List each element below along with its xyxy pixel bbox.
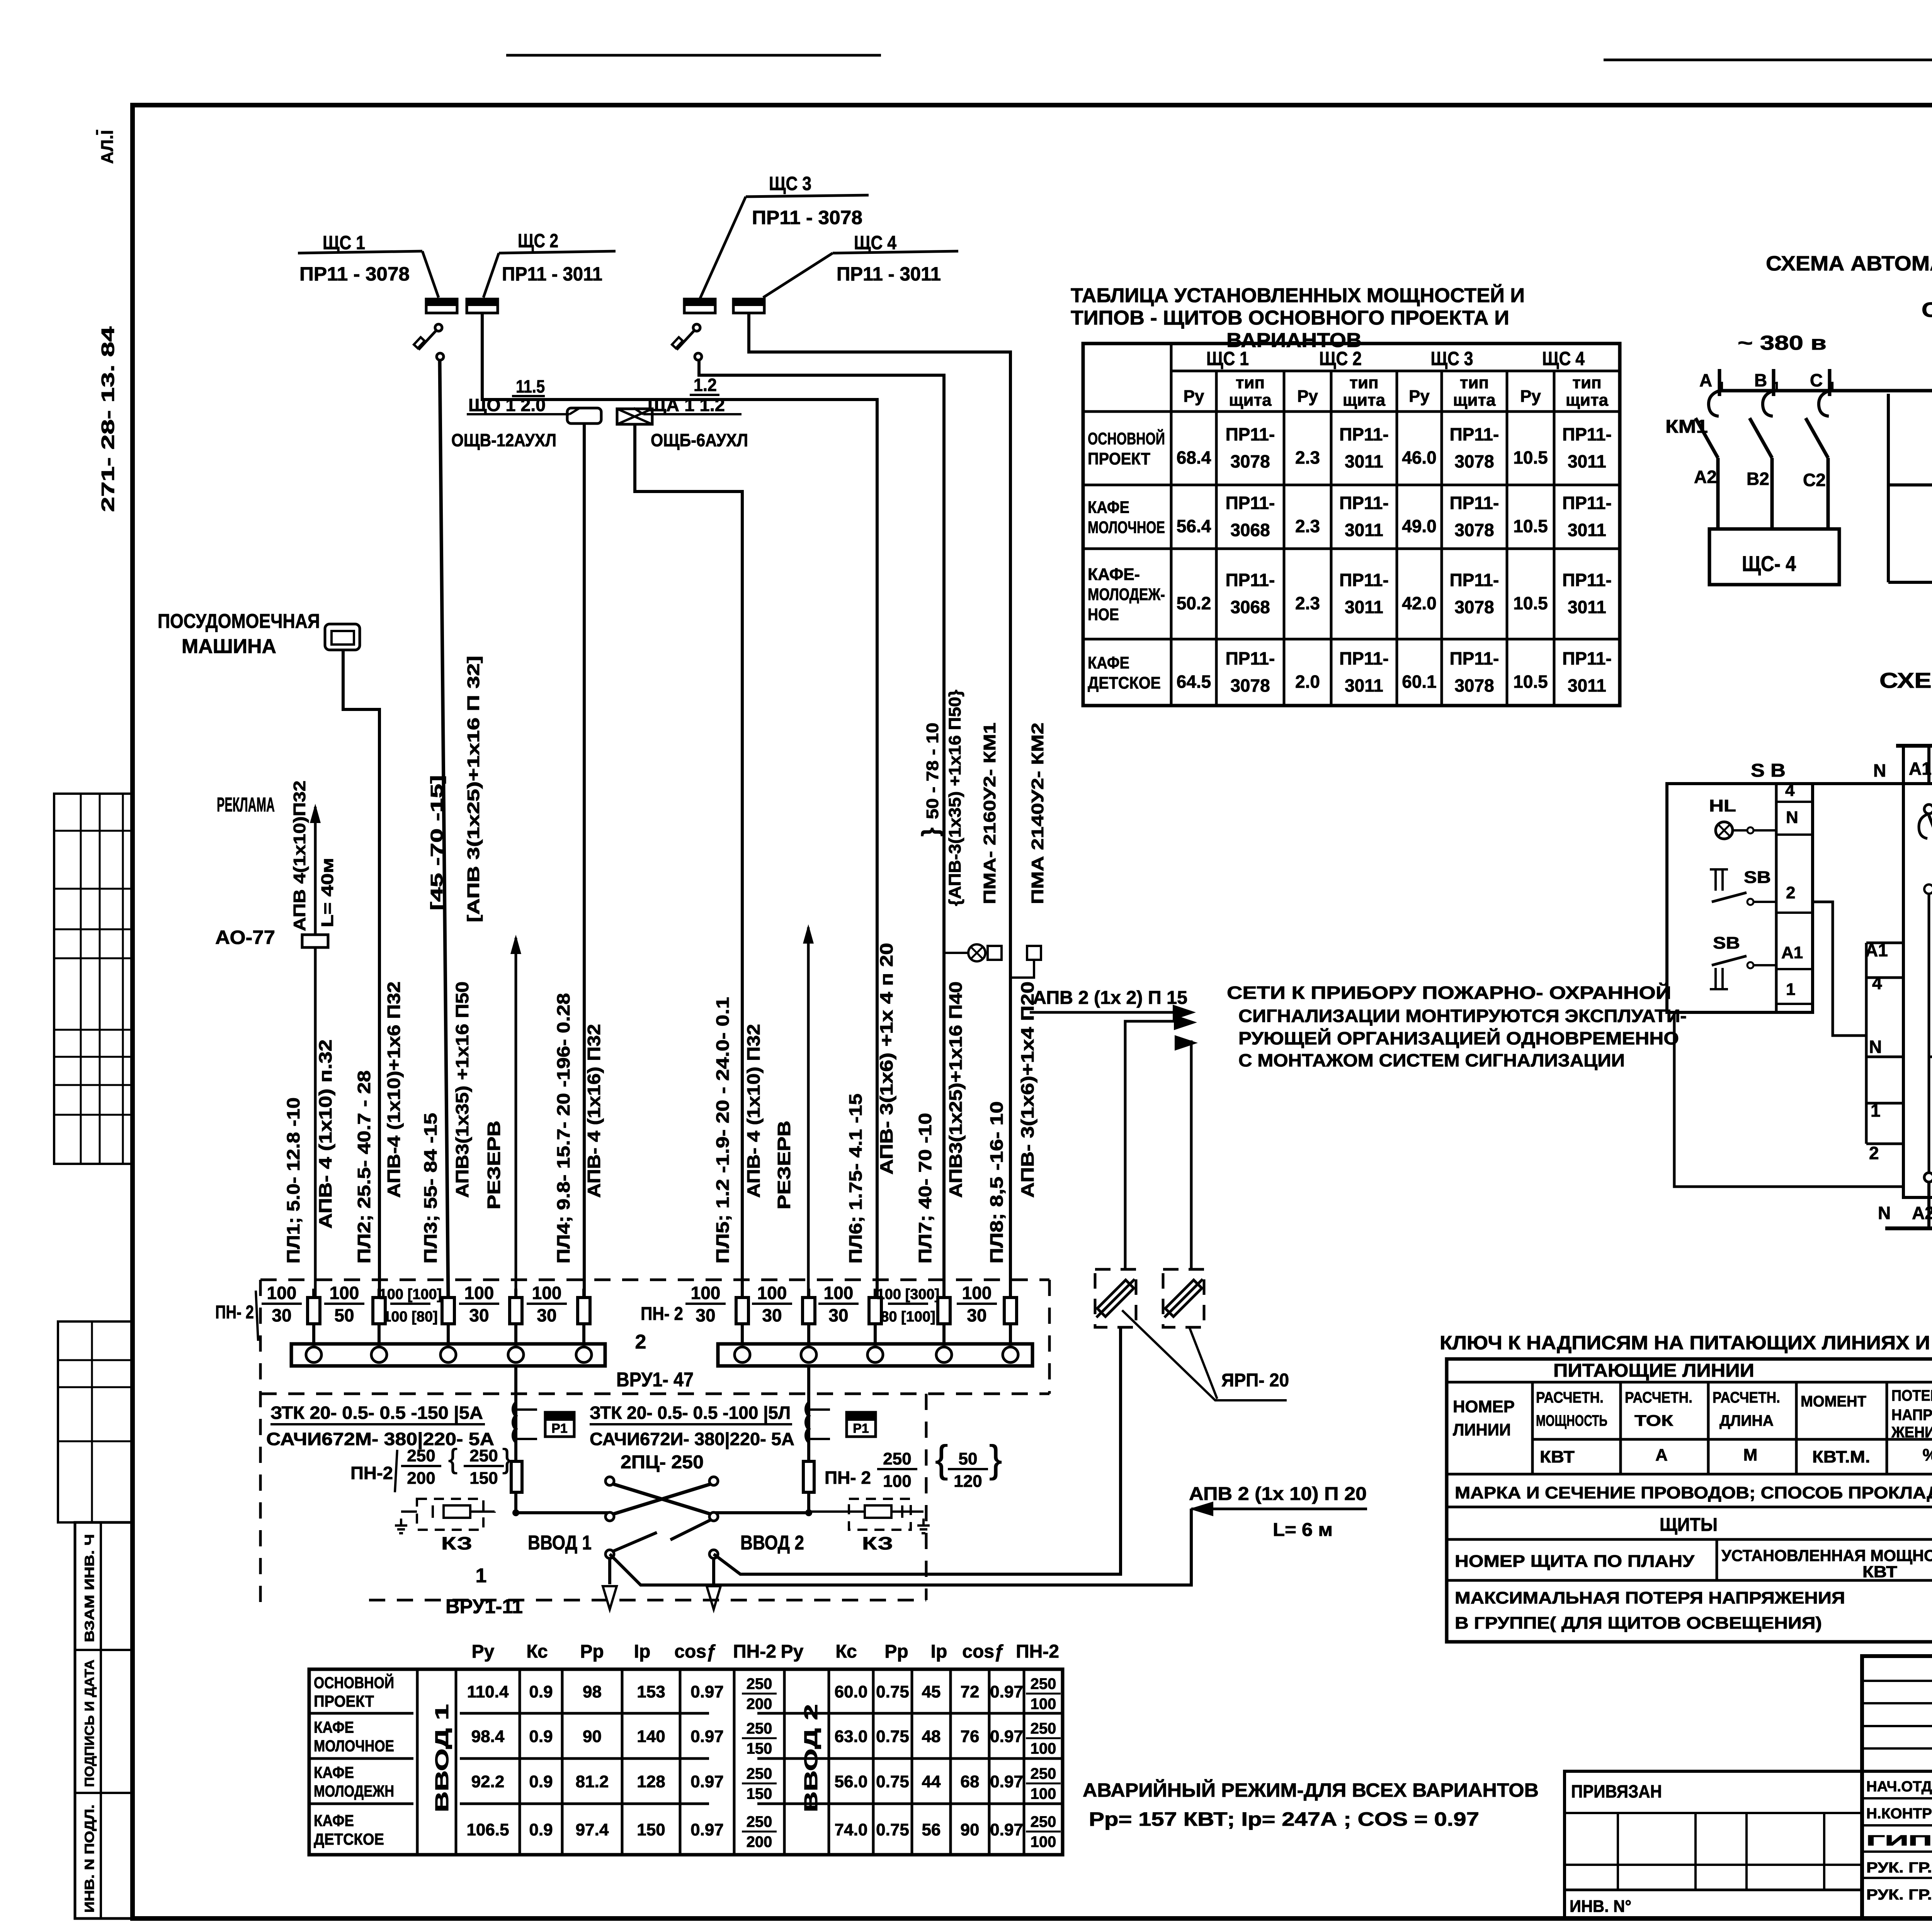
junction left [512, 1509, 519, 1516]
svg-text:АПВ 2 (1х 10) П 20: АПВ 2 (1х 10) П 20 [1189, 1484, 1367, 1504]
svg-text:щита: щита [1343, 391, 1386, 410]
svg-text:ТОК: ТОК [1634, 1412, 1673, 1429]
svg-text:200: 200 [407, 1469, 435, 1488]
wire ПЛ1 Реклама with up arrow [314, 807, 317, 1299]
svg-text:30: 30 [469, 1305, 489, 1325]
svg-text:А: А [1655, 1446, 1668, 1464]
svg-text:SB: SB [1713, 934, 1740, 952]
wire output down-arrow 2 [712, 1558, 715, 1584]
svg-text:тип: тип [1236, 373, 1265, 392]
wire output down-arrow 1 [608, 1558, 611, 1584]
svg-text:0.75: 0.75 [876, 1682, 909, 1701]
wire ЩО1 feeder ПЛ4 down [583, 423, 586, 1299]
title block upper-left rows [1862, 1680, 1932, 1682]
svg-text:[АПВ 3(1х25)+1х16 П 32]: [АПВ 3(1х25)+1х16 П 32] [464, 656, 483, 922]
svg-text:110.4: 110.4 [467, 1682, 509, 1701]
title block signature rows [1862, 1797, 1932, 1799]
svg-text:3011: 3011 [1345, 451, 1383, 471]
svg-text:0.75: 0.75 [876, 1727, 909, 1746]
wire ЩС3 to ПЛ7 [699, 360, 944, 1299]
wire ЩС2 to ПЛ6 [482, 313, 877, 1299]
switch under ЩС1 [435, 324, 442, 331]
svg-text:ВВОД 2: ВВОД 2 [740, 1532, 804, 1554]
svg-text:ПРОЕКТ: ПРОЕКТ [314, 1692, 374, 1710]
svg-text:ПОСУДОМОЕЧНАЯ: ПОСУДОМОЕЧНАЯ [158, 610, 320, 633]
svg-text:ПЛ4; 9.8- 15.7- 20 -196- 0.28: ПЛ4; 9.8- 15.7- 20 -196- 0.28 [553, 993, 573, 1264]
svg-text:81.2: 81.2 [576, 1772, 609, 1791]
svg-text:КВТ: КВТ [1862, 1563, 1897, 1581]
svg-text:100: 100 [464, 1283, 494, 1303]
svg-text:СХЕМА ЭЛЕКТРИЧЕСКАЯ ПРИНЦИ: СХЕМА ЭЛЕКТРИЧЕСКАЯ ПРИНЦИПИАЛЬНАЯ [1922, 298, 1932, 321]
svg-text:2: 2 [1869, 1143, 1879, 1163]
svg-text:0.97: 0.97 [990, 1772, 1023, 1791]
svg-text:56.0: 56.0 [835, 1772, 868, 1791]
svg-text:ЩС 1: ЩС 1 [1206, 348, 1249, 369]
svg-text:КЛЮЧ К НАДПИСЯМ НА ПИТАЮЩИ: КЛЮЧ К НАДПИСЯМ НА ПИТАЮЩИХ ЛИНИЯХ И ЩИТ… [1440, 1332, 1932, 1354]
svg-text:2.3: 2.3 [1295, 447, 1320, 468]
svg-text:2.3: 2.3 [1295, 516, 1320, 536]
svg-text:АПВ- 4 (1х10) П32: АПВ- 4 (1х10) П32 [743, 1024, 764, 1198]
svg-text:3078: 3078 [1454, 520, 1494, 540]
svg-text:АПВ 4(1х10)П32: АПВ 4(1х10)П32 [290, 781, 309, 931]
svg-text:НОЕ: НОЕ [1088, 605, 1119, 624]
svg-text:L= 6 м: L= 6 м [1273, 1520, 1333, 1540]
svg-text:ПР11-: ПР11- [1450, 570, 1499, 590]
svg-text:С МОНТАЖОМ СИСТЕМ СИГНАЛИЗАЦ: С МОНТАЖОМ СИСТЕМ СИГНАЛИЗАЦИИ [1238, 1050, 1625, 1070]
svg-text:ЩС 2: ЩС 2 [1319, 348, 1362, 369]
svg-text:3068: 3068 [1230, 520, 1270, 540]
svg-text:Р1: Р1 [551, 1421, 568, 1436]
starter symbol КМ2 on ПЛ8 stub [1027, 946, 1041, 960]
svg-text:30: 30 [762, 1305, 782, 1325]
wire changeover to ЯРП line upper [714, 1327, 1121, 1574]
meter box Р1 left [545, 1412, 574, 1437]
svg-text:HL: HL [1709, 796, 1736, 815]
busbar right (ВРУ1-47 section 2) [718, 1344, 1032, 1366]
svg-text:~ 380 в: ~ 380 в [1738, 332, 1827, 354]
svg-text:2: 2 [1786, 883, 1795, 902]
svg-text:50: 50 [334, 1305, 354, 1325]
svg-text:Кс: Кс [835, 1641, 857, 1662]
svg-text:ПР11-: ПР11- [1562, 493, 1612, 513]
svg-text:2: 2 [635, 1331, 646, 1353]
switch under ЩС3 [693, 324, 700, 331]
svg-text:100: 100 [757, 1283, 787, 1303]
leader lines to ЯРП-20 [1122, 1310, 1287, 1400]
svg-text:ПР11-: ПР11- [1562, 648, 1612, 668]
svg-text:100: 100 [267, 1283, 297, 1303]
svg-text:РАСЧЕТН.: РАСЧЕТН. [1625, 1389, 1692, 1406]
svg-text:4: 4 [1785, 781, 1795, 800]
panel symbol ЩС2 [467, 299, 498, 313]
svg-text:ЩС 1: ЩС 1 [323, 232, 365, 253]
svg-text:АПВ-4 (1х10)+1х6 П32: АПВ-4 (1х10)+1х6 П32 [384, 981, 404, 1198]
svg-text:ПЛ1; 5.0- 12.8 -10: ПЛ1; 5.0- 12.8 -10 [283, 1097, 303, 1264]
svg-text:МАШИНА: МАШИНА [182, 635, 276, 658]
svg-text:КАФЕ-: КАФЕ- [1088, 565, 1140, 584]
svg-text:3078: 3078 [1454, 597, 1494, 617]
svg-text:А1: А1 [1865, 940, 1888, 960]
svg-text:100: 100 [532, 1283, 562, 1303]
svg-text:Iр: Iр [931, 1641, 947, 1662]
wire arrow line2 [1125, 1021, 1175, 1269]
svg-text:ПЛ6; 1.75- 4.1 -15: ПЛ6; 1.75- 4.1 -15 [845, 1094, 866, 1264]
svg-text:100: 100 [1031, 1696, 1056, 1713]
svg-text:ПЛ8; 8,5 -16- 10: ПЛ8; 8,5 -16- 10 [986, 1101, 1007, 1264]
wire with arrow to note line1 [1030, 1011, 1182, 1014]
svg-text:ЗТК 20- 0.5- 0.5 -100 |5Л: ЗТК 20- 0.5- 0.5 -100 |5Л [590, 1403, 791, 1423]
svg-text:128: 128 [637, 1772, 665, 1791]
svg-text:60.0: 60.0 [835, 1682, 868, 1701]
svg-text:30: 30 [828, 1305, 848, 1325]
wire АПВ 2(1х10) П20 with arrow [1191, 1508, 1367, 1510]
fuse ПН-2 [514, 1289, 517, 1345]
reserve arrow right (резерв) [807, 927, 810, 1299]
svg-text:97.4: 97.4 [576, 1820, 609, 1839]
svg-text:ВВОД 1: ВВОД 1 [432, 1704, 452, 1812]
svg-text:Рр= 157 КВТ; Iр= 247А ; COS: Рр= 157 КВТ; Iр= 247А ; COS = 0.97 [1089, 1808, 1479, 1830]
svg-text:ПР11-: ПР11- [1339, 493, 1389, 513]
svg-text:3011: 3011 [1345, 597, 1383, 617]
svg-text:ИНВ. N ПОДЛ.: ИНВ. N ПОДЛ. [82, 1804, 97, 1913]
svg-text:3078: 3078 [1230, 675, 1270, 696]
svg-text:ЖЕНИЯ: ЖЕНИЯ [1891, 1424, 1932, 1441]
panel symbol ЩС3 [684, 299, 715, 313]
svg-text:90: 90 [583, 1727, 602, 1746]
svg-text:0.9: 0.9 [529, 1682, 553, 1701]
svg-text:Рр: Рр [580, 1641, 604, 1662]
svg-text:ПР11-: ПР11- [1339, 570, 1389, 590]
svg-text:ПР11-: ПР11- [1450, 648, 1499, 668]
ground right [922, 1519, 925, 1526]
svg-text:150: 150 [747, 1786, 772, 1803]
svg-text:ДЕТСКОЕ: ДЕТСКОЕ [314, 1830, 384, 1848]
svg-text:МОЛОДЕЖН: МОЛОДЕЖН [314, 1782, 394, 1800]
svg-text:10.5: 10.5 [1513, 516, 1548, 536]
svg-text:ПР11-: ПР11- [1450, 424, 1499, 444]
svg-text:ПР11 - 3011: ПР11 - 3011 [837, 263, 941, 285]
svg-text:{: { [448, 1444, 457, 1475]
svg-text:[45 -70 -15]: [45 -70 -15] [427, 775, 446, 910]
svg-text:250: 250 [1031, 1675, 1056, 1692]
panel box ЩА1 with cross [617, 409, 652, 424]
КМ1 poles [1924, 804, 1932, 814]
svg-text:СХЕМА ВНЕШНИХ СОЕДИНЕНИЙ: СХЕМА ВНЕШНИХ СОЕДИНЕНИЙ [1879, 668, 1932, 692]
svg-text:0.97: 0.97 [690, 1727, 724, 1746]
svg-text:250: 250 [747, 1765, 772, 1782]
svg-text:ЩС 3: ЩС 3 [1431, 348, 1473, 369]
svg-text:100: 100 [1031, 1740, 1056, 1757]
panel symbol ЩС4 [733, 299, 764, 313]
svg-text:ЩС- 4: ЩС- 4 [1742, 551, 1796, 576]
svg-text:ПН-2: ПН-2 [733, 1641, 776, 1662]
svg-text:УСТАНОВЛЕННАЯ МОЩНОСТЬ: УСТАНОВЛЕННАЯ МОЩНОСТЬ [1721, 1546, 1932, 1565]
svg-text:А: А [1699, 370, 1712, 390]
svg-text:271- 28- 13. 84: 271- 28- 13. 84 [98, 326, 118, 512]
svg-text:МОЛОДЕЖ-: МОЛОДЕЖ- [1088, 585, 1165, 604]
svg-text:ПЛ7; 40- 70 -10: ПЛ7; 40- 70 -10 [915, 1113, 935, 1264]
svg-text:РЕКЛАМА: РЕКЛАМА [217, 794, 275, 816]
svg-text:АПВ3(1х35) +1х16 П50: АПВ3(1х35) +1х16 П50 [452, 981, 472, 1198]
svg-text:250: 250 [747, 1675, 772, 1692]
fuse ПН-2 [942, 1289, 946, 1345]
wire block top link [1813, 782, 1903, 785]
svg-text:ПР11-: ПР11- [1339, 424, 1389, 444]
svg-text:1.2: 1.2 [694, 375, 717, 395]
svg-text:Ру: Ру [781, 1641, 804, 1662]
svg-text:{АПВ-3(1х35) +1х16 П50}: {АПВ-3(1х35) +1х16 П50} [946, 690, 964, 906]
svg-text:Ру: Ру [1184, 387, 1204, 406]
svg-text:ПН- 2: ПН- 2 [641, 1304, 683, 1324]
svg-text:ПР11-: ПР11- [1226, 424, 1275, 444]
svg-text:МОЩНОСТЬ: МОЩНОСТЬ [1536, 1412, 1607, 1429]
wire main control rung [1719, 389, 1932, 393]
svg-text:153: 153 [637, 1682, 665, 1701]
svg-text:N: N [1878, 1203, 1891, 1223]
svg-text:ИНВ. N°: ИНВ. N° [1570, 1897, 1631, 1916]
left block SB outline [1667, 784, 1813, 1012]
busbar left (ВРУ1-47 section 1) [291, 1344, 605, 1366]
svg-text:250: 250 [407, 1446, 435, 1465]
svg-text:Ру: Ру [1297, 387, 1318, 406]
svg-text:ПН-2: ПН-2 [350, 1463, 393, 1483]
margin revision grid upper [54, 794, 133, 1164]
fuse ПН-2 right main [803, 1461, 814, 1492]
svg-text:92.2: 92.2 [471, 1772, 505, 1791]
svg-text:200: 200 [747, 1833, 772, 1850]
svg-text:44: 44 [922, 1772, 941, 1791]
svg-text:ПЛ2; 25.5- 40.7 - 28: ПЛ2; 25.5- 40.7 - 28 [354, 1070, 374, 1264]
svg-text:АПВ 2 (1х 2) П 15: АПВ 2 (1х 2) П 15 [1033, 988, 1187, 1008]
svg-text:50.2: 50.2 [1177, 593, 1211, 613]
svg-text:Ру: Ру [1520, 387, 1541, 406]
svg-text:68: 68 [961, 1772, 980, 1791]
title block Привязан sub-block [1565, 1771, 1862, 1918]
panel box ЩО1 [567, 408, 601, 423]
earthing switch КЗ left (dashed box) [417, 1499, 483, 1530]
svg-text:ВРУ1-11: ВРУ1-11 [446, 1595, 523, 1618]
svg-text:0.97: 0.97 [990, 1682, 1023, 1701]
svg-text:В: В [1754, 370, 1767, 390]
svg-text:48: 48 [922, 1727, 941, 1746]
svg-text:ДЕТСКОЕ: ДЕТСКОЕ [1088, 673, 1161, 692]
svg-text:80 [100]: 80 [100] [881, 1309, 935, 1325]
svg-text:САЧИ672М- 380|220- 5А: САЧИ672М- 380|220- 5А [266, 1429, 494, 1449]
reserve arrow left (резерв) [515, 938, 517, 1299]
svg-text:10.5: 10.5 [1513, 447, 1548, 468]
svg-text:ПИТАЮЩИЕ ЛИНИИ: ПИТАЮЩИЕ ЛИНИИ [1553, 1361, 1754, 1381]
svg-text:140: 140 [637, 1727, 665, 1746]
svg-text:N: N [1869, 1037, 1882, 1057]
starter symbol КМ1 on ПЛ7 [968, 944, 985, 961]
svg-text:АПВ- 3(1х6)+1х4 П20: АПВ- 3(1х6)+1х4 П20 [1017, 981, 1037, 1198]
meter box Р1 right [847, 1412, 876, 1437]
svg-text:SB: SB [1744, 868, 1771, 887]
sheet top edge line left [506, 54, 881, 57]
wire changeover to ЯРП line lower [610, 1509, 1191, 1585]
svg-text:ОСНОВНОЙ: ОСНОВНОЙ [1088, 429, 1165, 448]
svg-text:{: { [935, 1437, 948, 1481]
svg-text:0.97: 0.97 [690, 1772, 724, 1791]
wire ЩС1 feeder ПЛ3 down [440, 360, 448, 1299]
svg-text:3011: 3011 [1345, 675, 1383, 696]
sheet top edge line [1604, 59, 1932, 61]
svg-text:49.0: 49.0 [1402, 516, 1437, 536]
svg-text:НАЧ.ОТД: НАЧ.ОТД [1866, 1779, 1932, 1795]
svg-text:3068: 3068 [1230, 597, 1270, 617]
svg-text:АПВ- 4 (1х16) П32: АПВ- 4 (1х16) П32 [584, 1024, 604, 1198]
svg-text:56.4: 56.4 [1177, 516, 1211, 536]
fuse ПН-2 [807, 1289, 810, 1345]
svg-text:100: 100 [330, 1283, 359, 1303]
svg-text:250: 250 [1031, 1813, 1056, 1830]
svg-text:10.5: 10.5 [1513, 672, 1548, 692]
svg-text:АПВ- 3(1х6) +1х 4 п 20: АПВ- 3(1х6) +1х 4 п 20 [876, 943, 896, 1175]
svg-text:ТИПОВ - ЩИТОВ ОСНОВНОГО ПРО: ТИПОВ - ЩИТОВ ОСНОВНОГО ПРОЕКТА И [1071, 307, 1509, 329]
svg-text:0.97: 0.97 [690, 1820, 724, 1839]
svg-text:ДЛИНА: ДЛИНА [1719, 1412, 1774, 1429]
wire block bottom link [1674, 1012, 1903, 1187]
fuse ПН-2 [447, 1289, 450, 1345]
title block main outline [1862, 1656, 1932, 1918]
dashed enclosure ВРУ1-47 [260, 1279, 1049, 1281]
svg-text:46.0: 46.0 [1402, 447, 1437, 468]
fuse ПН-2 [1009, 1289, 1012, 1345]
svg-text:2ПЦ- 250: 2ПЦ- 250 [621, 1452, 704, 1473]
svg-text:1: 1 [1786, 980, 1795, 999]
svg-text:РАСЧЕТН.: РАСЧЕТН. [1536, 1389, 1604, 1406]
svg-text:150: 150 [747, 1740, 772, 1757]
svg-text:3011: 3011 [1568, 451, 1606, 471]
svg-text:КВТ: КВТ [1540, 1447, 1575, 1466]
svg-text:100: 100 [824, 1283, 854, 1303]
svg-text:0.9: 0.9 [529, 1772, 553, 1791]
svg-text:ПОТЕРЯ: ПОТЕРЯ [1891, 1387, 1932, 1404]
svg-text:ПЛ3; 55- 84 -15: ПЛ3; 55- 84 -15 [420, 1113, 440, 1264]
svg-text:ПР11-: ПР11- [1226, 648, 1275, 668]
svg-text:100: 100 [1031, 1786, 1056, 1803]
svg-text:63.0: 63.0 [835, 1727, 868, 1746]
svg-text:3011: 3011 [1568, 597, 1606, 617]
starter block КМ1 outline [1903, 784, 1932, 1197]
svg-text:тип: тип [1460, 373, 1489, 392]
svg-text:ТАБЛИЦА УСТАНОВЛЕННЫХ МОЩНОС: ТАБЛИЦА УСТАНОВЛЕННЫХ МОЩНОСТЕЙ И [1071, 284, 1525, 307]
svg-text:68.4: 68.4 [1177, 447, 1211, 468]
svg-text:ПР11-: ПР11- [1226, 570, 1275, 590]
svg-text:2.3: 2.3 [1295, 593, 1320, 613]
svg-text:0.75: 0.75 [876, 1772, 909, 1791]
svg-text:М: М [1743, 1446, 1758, 1464]
svg-text:КЗ: КЗ [441, 1533, 472, 1553]
svg-text:3078: 3078 [1230, 451, 1270, 471]
svg-text:45: 45 [922, 1682, 941, 1701]
box ЩС-4 [1709, 529, 1839, 585]
svg-text:РУК. ГР.: РУК. ГР. [1866, 1860, 1932, 1876]
svg-text:250: 250 [1031, 1720, 1056, 1737]
svg-text:А1: А1 [1909, 759, 1932, 779]
svg-text:Рр: Рр [884, 1641, 908, 1662]
svg-text:1: 1 [476, 1565, 487, 1587]
svg-text:ПРОЕКТ: ПРОЕКТ [1088, 449, 1150, 468]
svg-text:150: 150 [469, 1469, 498, 1488]
svg-text:ВРУ1- 47: ВРУ1- 47 [616, 1369, 694, 1391]
КМ1 left terminal strip [1866, 942, 1903, 944]
svg-text:50: 50 [959, 1449, 978, 1468]
svg-text:ПР11 - 3078: ПР11 - 3078 [299, 263, 410, 285]
svg-text:0.9: 0.9 [529, 1727, 553, 1746]
svg-text:АПВ3(1х25)+1х16 П40: АПВ3(1х25)+1х16 П40 [946, 981, 966, 1198]
margin grid middle [58, 1321, 133, 1522]
svg-text:КВТ.М.: КВТ.М. [1812, 1447, 1870, 1466]
svg-text:ПМА 2140У2- КМ2: ПМА 2140У2- КМ2 [1028, 723, 1047, 904]
svg-text:ПН-2: ПН-2 [1016, 1641, 1059, 1662]
svg-text:30: 30 [272, 1305, 291, 1325]
svg-text:А2: А2 [1912, 1203, 1932, 1223]
svg-text:щита: щита [1453, 391, 1496, 410]
power table grid [1083, 344, 1620, 706]
svg-text:10.5: 10.5 [1513, 593, 1548, 613]
earthing switch КЗ right (dashed box) [849, 1499, 911, 1530]
wire dishwasher feeder ПЛ2 [343, 650, 379, 1299]
svg-text:МАКСИМАЛЬНАЯ ПОТЕРЯ НАПРЯЖЕН: МАКСИМАЛЬНАЯ ПОТЕРЯ НАПРЯЖЕНИЯ [1455, 1588, 1845, 1607]
svg-text:ОЩВ-12АУХЛ: ОЩВ-12АУХЛ [451, 430, 556, 450]
svg-text:100 [300]: 100 [300] [877, 1286, 940, 1303]
wire left main drop [514, 1366, 517, 1513]
svg-text:ЩА 1 1.2: ЩА 1 1.2 [648, 395, 725, 415]
svg-text:250: 250 [469, 1446, 498, 1465]
svg-text:АО-77: АО-77 [215, 927, 275, 948]
svg-text:72: 72 [961, 1682, 980, 1701]
svg-text:ПР11-: ПР11- [1450, 493, 1499, 513]
svg-text:ЩО 1 2.0: ЩО 1 2.0 [468, 395, 546, 415]
svg-text:106.5: 106.5 [466, 1820, 509, 1839]
svg-text:САЧИ672И- 380|220- 5А: САЧИ672И- 380|220- 5А [590, 1429, 794, 1449]
svg-text:100 [80]: 100 [80] [383, 1309, 438, 1325]
current transformer ЗТК right [806, 1403, 809, 1442]
svg-text:250: 250 [1031, 1765, 1056, 1782]
wire right junction to changeover [714, 1511, 809, 1514]
svg-text:64.5: 64.5 [1177, 672, 1211, 692]
svg-text:ПР11-: ПР11- [1562, 424, 1612, 444]
svg-text:L= 40м: L= 40м [318, 858, 337, 927]
svg-text:ЩИТЫ: ЩИТЫ [1660, 1515, 1718, 1535]
wire right main drop [807, 1366, 810, 1513]
svg-text:0.97: 0.97 [990, 1820, 1023, 1839]
svg-text:30: 30 [967, 1305, 986, 1325]
wire junction to changeover [516, 1511, 610, 1514]
input table grid [309, 1669, 1063, 1855]
svg-text:Ру: Ру [472, 1641, 495, 1662]
svg-text:АПВ- 4 (1х10) п.32: АПВ- 4 (1х10) п.32 [315, 1039, 335, 1229]
svg-text:КАФЕ: КАФЕ [314, 1764, 354, 1782]
svg-text:ПР11 - 3078: ПР11 - 3078 [752, 207, 862, 228]
dishwasher box [325, 624, 360, 650]
svg-text:ЗТК 20- 0.5- 0.5 -150 |5А: ЗТК 20- 0.5- 0.5 -150 |5А [270, 1403, 483, 1423]
left bus vertical [1887, 394, 1890, 582]
fuse ПН-2 [741, 1289, 744, 1345]
svg-text:30: 30 [537, 1305, 556, 1325]
dashed enclosure ВРУ1-11 [925, 1394, 928, 1600]
svg-text:ОСНОВНОЙ: ОСНОВНОЙ [314, 1673, 394, 1692]
svg-text:тип: тип [1349, 373, 1378, 392]
svg-text:СЕТИ К ПРИБОРУ ПОЖАРНО- ОХР: СЕТИ К ПРИБОРУ ПОЖАРНО- ОХРАННОЙ [1227, 983, 1671, 1003]
svg-text:РЕЗЕРВ: РЕЗЕРВ [774, 1121, 794, 1209]
svg-text:0.9: 0.9 [529, 1820, 553, 1839]
fuse ПН-2 left main [511, 1461, 522, 1492]
svg-text:S B: S B [1751, 760, 1786, 781]
svg-text:А2: А2 [1694, 467, 1717, 487]
svg-text:98.4: 98.4 [471, 1727, 505, 1746]
